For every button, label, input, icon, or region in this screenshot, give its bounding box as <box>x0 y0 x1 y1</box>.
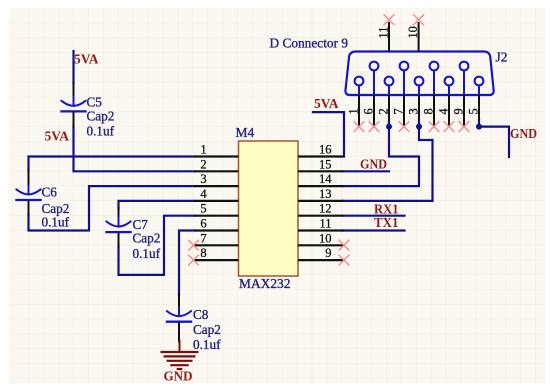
svg-text:12: 12 <box>319 202 332 216</box>
svg-text:9: 9 <box>452 108 466 114</box>
svg-text:5VA: 5VA <box>74 51 99 66</box>
svg-text:0.1uf: 0.1uf <box>87 124 115 139</box>
svg-text:14: 14 <box>319 172 332 186</box>
svg-text:GND: GND <box>360 157 387 172</box>
svg-text:3: 3 <box>200 172 206 186</box>
svg-text:GND: GND <box>164 369 193 384</box>
svg-text:1: 1 <box>347 108 361 114</box>
svg-text:C8: C8 <box>193 307 209 322</box>
svg-text:13: 13 <box>319 187 332 201</box>
svg-text:1: 1 <box>200 143 206 157</box>
svg-text:5VA: 5VA <box>45 128 70 143</box>
svg-text:J2: J2 <box>496 50 508 65</box>
svg-text:5: 5 <box>200 202 206 216</box>
svg-text:15: 15 <box>319 157 332 171</box>
svg-text:RX1: RX1 <box>374 201 399 216</box>
svg-text:10: 10 <box>319 231 332 245</box>
svg-text:7: 7 <box>392 108 406 114</box>
svg-text:16: 16 <box>319 143 332 157</box>
svg-text:8: 8 <box>200 246 206 260</box>
svg-text:6: 6 <box>362 108 376 114</box>
svg-text:9: 9 <box>325 246 331 260</box>
svg-text:Cap2: Cap2 <box>87 108 115 123</box>
svg-text:TX1: TX1 <box>374 215 399 230</box>
svg-text:D Connector 9: D Connector 9 <box>270 36 349 51</box>
svg-text:2: 2 <box>377 108 391 114</box>
svg-text:0.1uf: 0.1uf <box>193 337 221 352</box>
svg-text:3: 3 <box>407 108 421 114</box>
svg-text:GND: GND <box>510 126 537 141</box>
svg-text:0.1uf: 0.1uf <box>42 214 70 229</box>
svg-text:M4: M4 <box>236 125 255 140</box>
svg-text:8: 8 <box>422 108 436 114</box>
svg-text:Cap2: Cap2 <box>193 322 221 337</box>
svg-text:6: 6 <box>200 217 206 231</box>
svg-text:4: 4 <box>437 108 451 114</box>
svg-text:C5: C5 <box>87 95 103 110</box>
svg-text:11: 11 <box>377 27 391 39</box>
svg-text:7: 7 <box>200 231 206 245</box>
svg-text:5: 5 <box>467 108 481 114</box>
svg-text:5VA: 5VA <box>314 96 339 111</box>
svg-text:4: 4 <box>200 187 207 201</box>
svg-text:C6: C6 <box>42 185 58 200</box>
svg-text:MAX232: MAX232 <box>239 276 291 291</box>
svg-text:Cap2: Cap2 <box>133 230 161 245</box>
svg-text:0.1uf: 0.1uf <box>133 246 161 261</box>
svg-text:10: 10 <box>406 26 420 38</box>
svg-text:11: 11 <box>319 217 331 231</box>
svg-text:2: 2 <box>200 157 206 171</box>
